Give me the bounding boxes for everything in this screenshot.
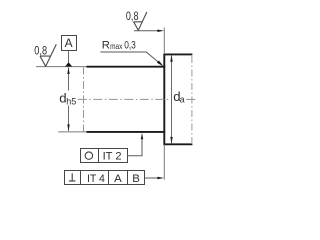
centerline: seat vertical centerline (dash-dot) — [83, 67, 85, 132]
wire: R leader line with arrow into fillet corner — [100, 52, 159, 63]
tolerance frame: circularity IT 2 — [81, 149, 128, 163]
centerline: shoulder right boundary (dash-dot) — [191, 56, 193, 144]
datum A: leader stem — [68, 51, 70, 64]
shaft seat bottom contour (thick) — [87, 131, 166, 133]
svg-text:0,3: 0,3 — [124, 40, 136, 52]
wire: perpendicularity leader with arrow to face extension — [144, 177, 158, 179]
wire: IT2 leader elbow with arrow up to seat bottom — [127, 138, 142, 156]
svg-text:A: A — [114, 173, 122, 185]
svg-text:IT 4: IT 4 — [87, 173, 105, 185]
svg-text:max: max — [110, 42, 122, 51]
svg-text:B: B — [132, 173, 140, 185]
datum A: frame box — [62, 36, 77, 51]
svg-text:A: A — [65, 36, 73, 50]
wire: roughness leader with arrow to shoulder face extension — [134, 30, 158, 32]
dimension d_a: dimension line — [171, 55, 173, 143]
wire: shoulder face extension line down — [163, 145, 165, 180]
centerline: shaft axis (dash-dot) — [78, 98, 169, 100]
shaft seat top contour (thick) — [87, 66, 166, 68]
svg-text:a: a — [180, 95, 185, 105]
tolerance frame: perpendicularity IT 4 A B — [65, 171, 145, 185]
wire: shoulder face extension line up — [163, 28, 165, 55]
perpendicularity symbol — [69, 173, 76, 181]
dimension d_h5: dimension line — [68, 68, 70, 91]
wire: seat top extension line (thin, left) — [36, 66, 87, 68]
svg-text:0,8: 0,8 — [34, 43, 47, 57]
shoulder face contour (thick vertical) — [163, 54, 165, 146]
svg-text:h5: h5 — [66, 97, 76, 107]
shoulder bottom contour (thick) — [164, 143, 192, 145]
datum A: filled triangle on surface — [65, 62, 72, 66]
svg-text:0,8: 0,8 — [126, 9, 139, 23]
shoulder top contour (thick) — [164, 53, 192, 55]
wire: seat bottom extension line (thin, left) — [58, 131, 87, 133]
svg-text:R: R — [102, 40, 110, 52]
svg-text:IT 2: IT 2 — [103, 150, 122, 162]
